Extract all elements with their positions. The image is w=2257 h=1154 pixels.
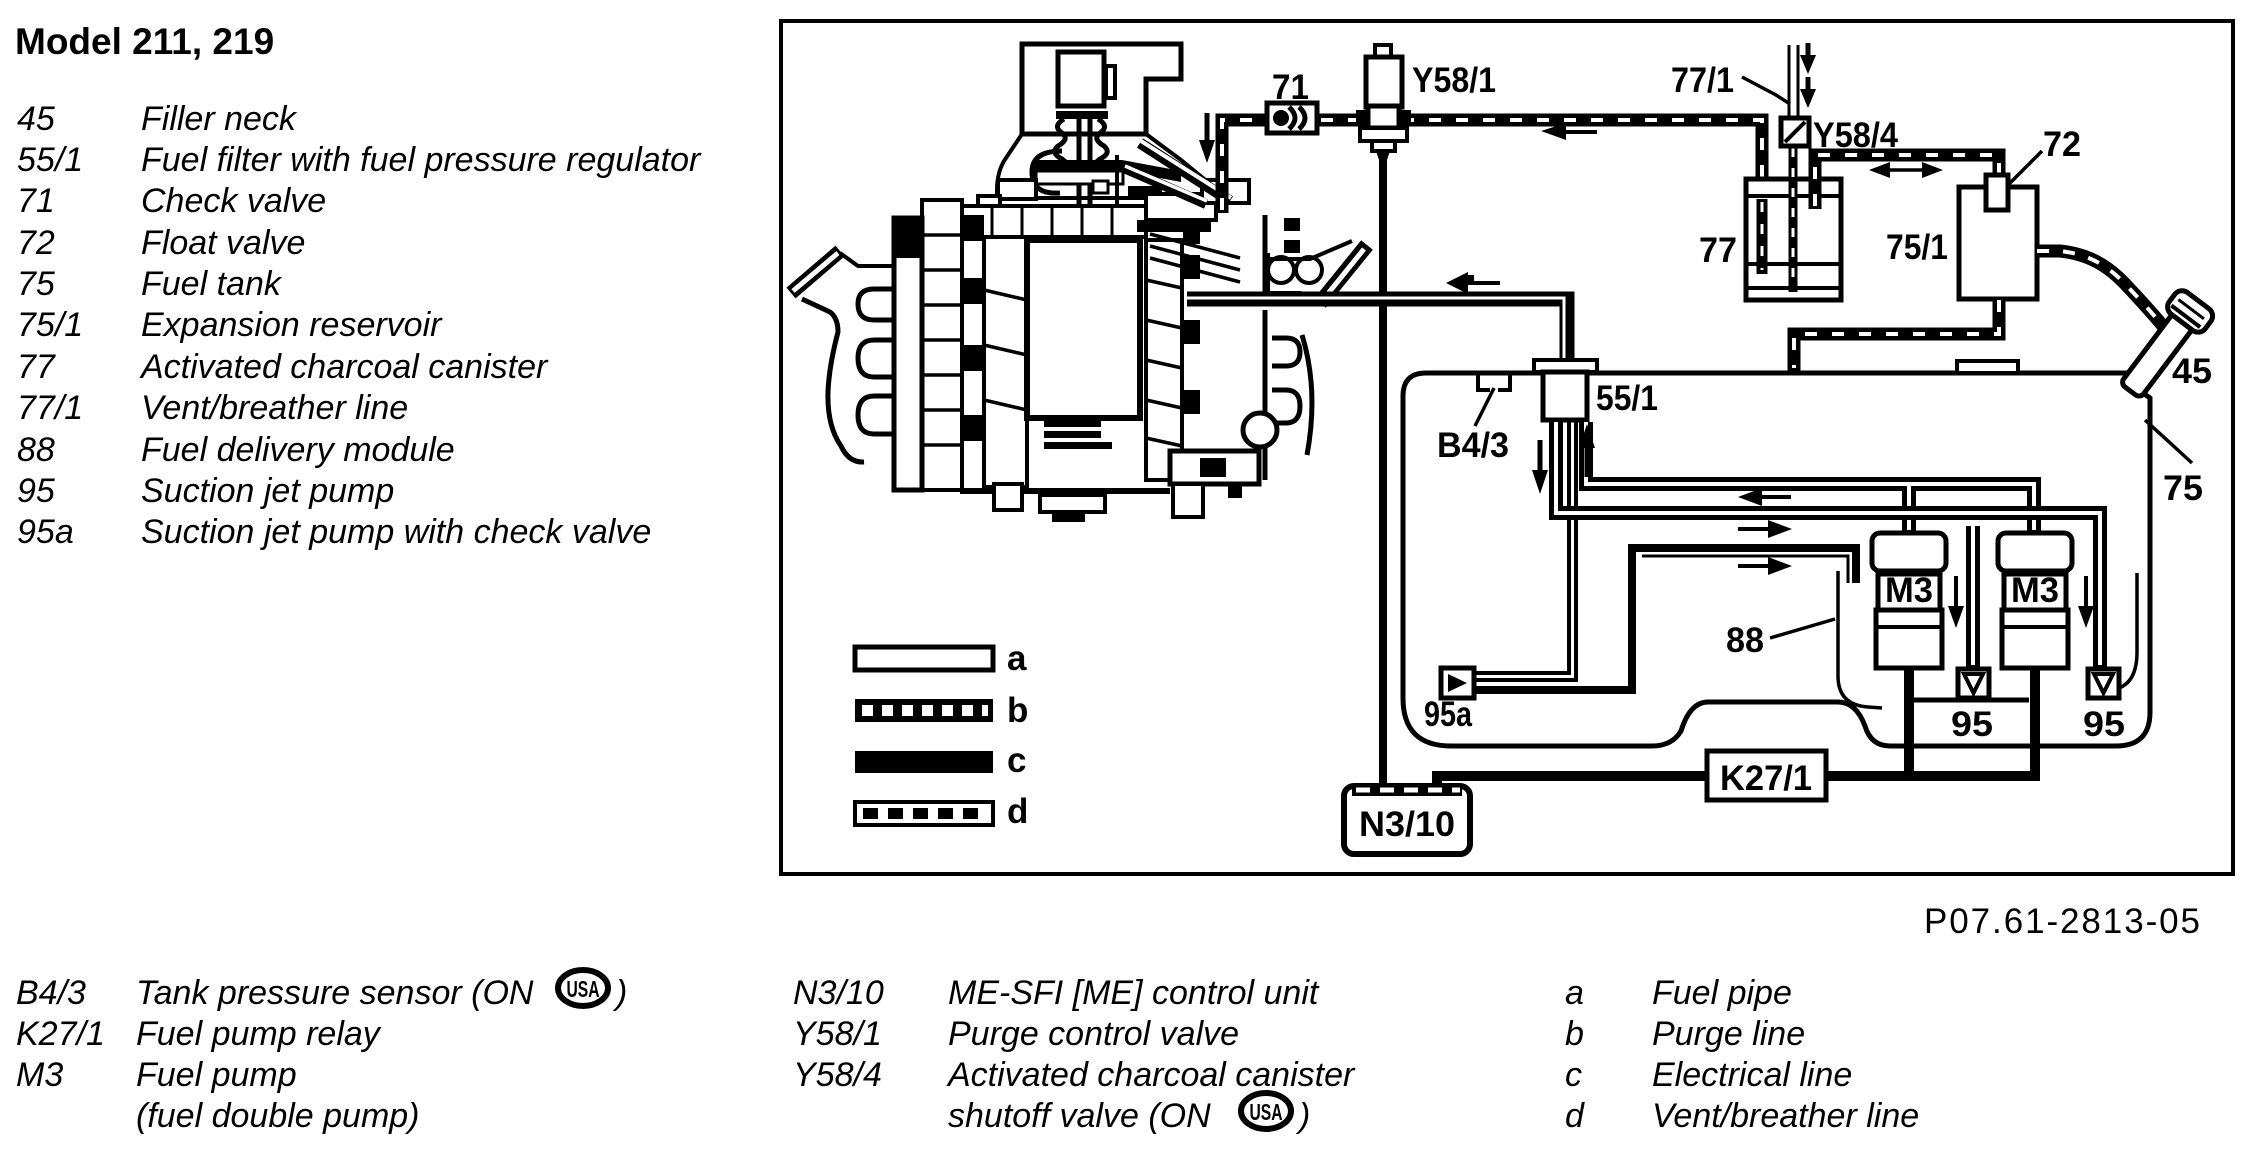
float valve 72	[1986, 175, 2008, 210]
flow arrow down at filter	[1532, 440, 1548, 494]
flow arrow left on purge line	[1541, 123, 1597, 140]
slant pipes engine to purge	[1140, 143, 1230, 201]
charcoal canister 77	[1746, 179, 1841, 300]
engine assembly	[791, 44, 1367, 522]
vent breather line 77/1	[1789, 45, 1798, 292]
fuel tank 75 outline	[1403, 373, 2150, 746]
cylinder	[1027, 240, 1140, 418]
USA badge 1	[558, 970, 608, 1006]
svg-text:Suction jet pump: Suction jet pump	[141, 472, 394, 510]
purge line 75/1 bottom to tank (b)	[1794, 297, 1999, 372]
transfer curve right	[2108, 573, 2137, 690]
flow arrow left on pipe L1	[1738, 488, 1791, 506]
leader 88	[1770, 619, 1835, 638]
white box throttle	[1146, 194, 1216, 220]
left fittings	[998, 180, 1036, 199]
bottom bits	[960, 488, 1170, 494]
svg-text:d: d	[1007, 792, 1028, 831]
flow arrow right on pipe L2	[1738, 520, 1792, 538]
right funnel	[1320, 245, 1367, 303]
right lower flange	[1170, 451, 1259, 484]
legend bottom col2	[793, 974, 1356, 1135]
leader 77/1	[1742, 77, 1790, 104]
suction jet pump with check valve 95a	[1441, 668, 1474, 698]
inner box	[1058, 52, 1104, 106]
svg-text:shutoff valve (ON: shutoff valve (ON	[948, 1097, 1211, 1135]
shutoff valve Y58/4	[1781, 118, 1809, 146]
svg-text:95a: 95a	[1424, 695, 1472, 734]
svg-text:Activated charcoal canister: Activated charcoal canister	[139, 348, 549, 386]
fuel pump M3 right	[1998, 533, 2072, 668]
svg-text:45: 45	[2172, 352, 2212, 391]
mid band right of cylinder	[1146, 240, 1182, 480]
svg-text:75/1: 75/1	[17, 306, 83, 344]
flow arrow up at filter	[1579, 424, 1595, 477]
expansion reservoir 75/1	[1959, 187, 2037, 299]
black blobs	[963, 215, 984, 241]
pump shelf line	[1914, 698, 2029, 703]
filler neck 45	[2112, 287, 2216, 404]
svg-text:Purge line: Purge line	[1652, 1015, 1805, 1053]
svg-text:USA: USA	[1250, 1099, 1283, 1125]
tank top flange	[1957, 361, 2018, 373]
svg-text:Check valve: Check valve	[141, 182, 326, 220]
svg-text:95: 95	[2083, 705, 2125, 744]
svg-text:77/1: 77/1	[1671, 61, 1734, 100]
flow arrow right on suction line	[1738, 557, 1792, 575]
ME-SFI control unit N3/10	[1344, 784, 1470, 854]
svg-text:c: c	[1007, 741, 1026, 780]
svg-text:55/1: 55/1	[17, 141, 83, 179]
right engine edge	[1263, 215, 1268, 295]
left loops	[858, 289, 895, 320]
svg-text:Activated charcoal canister: Activated charcoal canister	[946, 1056, 1356, 1094]
cam cover black band	[1034, 160, 1181, 182]
svg-text:B4/3: B4/3	[16, 974, 86, 1012]
fuel rail curls	[1268, 257, 1294, 283]
left ladder block	[922, 200, 962, 490]
fuel pipe engine to filter (a)	[1187, 298, 1567, 362]
suction line L3 to 95a (thick)	[1632, 548, 1856, 693]
svg-text:b: b	[1565, 1015, 1584, 1053]
svg-text:a: a	[1565, 974, 1584, 1012]
tank corner wedge	[2127, 373, 2146, 398]
svg-text:Tank pressure sensor (ON: Tank pressure sensor (ON	[136, 974, 534, 1012]
svg-text:Y58/4: Y58/4	[793, 1056, 882, 1094]
svg-text:d: d	[1565, 1097, 1585, 1135]
tank pressure sensor B4/3	[1475, 373, 1510, 426]
svg-text:Y58/1: Y58/1	[1412, 61, 1496, 100]
svg-text:72: 72	[17, 224, 55, 262]
svg-text:B4/3: B4/3	[1437, 426, 1509, 465]
svg-text:77: 77	[1699, 231, 1737, 270]
svg-text:Float valve: Float valve	[141, 224, 305, 262]
svg-text:M3: M3	[16, 1056, 63, 1094]
electrical line left pump to relay (c)	[1904, 668, 1914, 776]
svg-text:Model 211, 219: Model 211, 219	[15, 21, 274, 62]
svg-text:88: 88	[1726, 621, 1764, 660]
legend bottom col3	[1565, 974, 1919, 1135]
svg-text:45: 45	[17, 100, 55, 138]
flow arrow down at left pump	[1948, 576, 1964, 628]
77/1 arrows	[1800, 43, 1816, 108]
svg-text:Electrical line: Electrical line	[1652, 1056, 1852, 1094]
arrow on fuel pipe	[1446, 272, 1500, 294]
svg-text:88: 88	[17, 431, 55, 469]
suction jet pump 95 right	[2088, 669, 2119, 698]
svg-text:Vent/breather line: Vent/breather line	[141, 389, 408, 427]
arrow down near purge vertical	[1199, 113, 1215, 163]
svg-text:USA: USA	[567, 976, 600, 1002]
far-left column	[894, 218, 922, 490]
svg-text:(fuel double pump): (fuel double pump)	[136, 1097, 420, 1135]
svg-text:77/1: 77/1	[17, 389, 83, 427]
svg-text:K27/1: K27/1	[1720, 759, 1812, 798]
C curl	[1032, 151, 1062, 193]
line style legend samples	[855, 639, 1028, 831]
left funnel	[791, 251, 840, 293]
svg-text:Filler neck: Filler neck	[141, 100, 298, 138]
bellows	[1055, 119, 1068, 164]
suction jet pump 95 left	[1958, 669, 1989, 698]
88 module outline	[1838, 571, 1882, 708]
svg-text:Fuel tank: Fuel tank	[141, 265, 283, 303]
USA badge 2	[1241, 1093, 1291, 1129]
svg-text:95a: 95a	[17, 513, 74, 551]
black bar	[1056, 111, 1108, 119]
fuel pipe L1 filter to pumps (a)	[1586, 422, 2034, 533]
right blobs	[1284, 218, 1300, 231]
purge line engine to canister (b)	[1222, 120, 1762, 274]
svg-text:77: 77	[17, 348, 56, 386]
legend left column	[17, 100, 702, 551]
right bank slants	[1150, 234, 1240, 258]
purge line 75/1 right to filler neck (b)	[2035, 251, 2167, 331]
check valve 71	[1267, 103, 1317, 133]
flow arrow down at right pump	[2078, 576, 2094, 628]
svg-text:Y58/4: Y58/4	[1813, 116, 1898, 155]
fuel pump relay K27/1	[1707, 751, 1826, 800]
valve cover top block	[1022, 44, 1181, 134]
svg-text:Fuel pump relay: Fuel pump relay	[136, 1015, 382, 1053]
left manifold outer arc + funnel bottom	[802, 299, 864, 462]
svg-text:Purge control valve: Purge control valve	[948, 1015, 1239, 1053]
svg-text:55/1: 55/1	[1596, 379, 1658, 418]
svg-text:75: 75	[2163, 469, 2203, 508]
svg-text:ME-SFI [ME] control unit: ME-SFI [ME] control unit	[948, 974, 1320, 1012]
svg-text:Fuel pump: Fuel pump	[136, 1056, 297, 1094]
electrical line right pump to relay (c)	[2030, 668, 2040, 776]
svg-text:N3/10: N3/10	[1359, 805, 1455, 844]
fuel pipe L2 filter to suction jet pumps (a)	[1556, 422, 2100, 669]
svg-text:72: 72	[2043, 125, 2081, 164]
svg-text:c: c	[1565, 1056, 1582, 1094]
svg-text:N3/10: N3/10	[793, 974, 884, 1012]
right loops	[1272, 338, 1300, 366]
svg-text:Y58/1: Y58/1	[793, 1015, 882, 1053]
fuel pump M3 left	[1872, 533, 1946, 668]
electrical bus N3/10 to K27/1 to pumps (c)	[1437, 776, 2040, 790]
svg-text:Fuel pipe: Fuel pipe	[1652, 974, 1792, 1012]
legend bottom col1	[16, 974, 534, 1135]
svg-text:b: b	[1007, 691, 1028, 730]
svg-text:Expansion reservoir: Expansion reservoir	[141, 306, 443, 344]
svg-text:71: 71	[17, 182, 55, 220]
svg-text:a: a	[1007, 639, 1027, 678]
svg-text:Vent/breather line: Vent/breather line	[1652, 1097, 1919, 1135]
svg-text:Fuel delivery module: Fuel delivery module	[141, 431, 455, 469]
svg-text:M3: M3	[1885, 571, 1933, 610]
svg-text:95: 95	[17, 472, 55, 510]
leader 75	[2145, 420, 2192, 463]
svg-text:M3: M3	[2011, 571, 2059, 610]
svg-text:Fuel filter with fuel pressure: Fuel filter with fuel pressure regulator	[141, 141, 702, 179]
svg-text:95: 95	[1951, 705, 1993, 744]
purge line canister to expansion reservoir (b)	[1815, 155, 1999, 209]
svg-text:75/1: 75/1	[1886, 228, 1948, 267]
double arrow on purge line	[1869, 162, 1943, 178]
95a connection lines	[1474, 673, 1636, 690]
valve band	[957, 206, 1146, 237]
svg-text:71: 71	[1272, 68, 1309, 107]
filter bundle vertical lines	[1569, 420, 1576, 682]
svg-text:P07.61-2813-05: P07.61-2813-05	[1924, 902, 2200, 941]
fuel filter 55/1	[1534, 360, 1597, 420]
injector stem	[1077, 111, 1082, 245]
piston stripes	[1044, 420, 1101, 427]
svg-text:75: 75	[17, 265, 55, 303]
purge control valve Y58/1	[1356, 45, 1411, 790]
svg-text:Suction jet pump with check va: Suction jet pump with check valve	[141, 513, 651, 551]
svg-text:K27/1: K27/1	[16, 1015, 105, 1053]
